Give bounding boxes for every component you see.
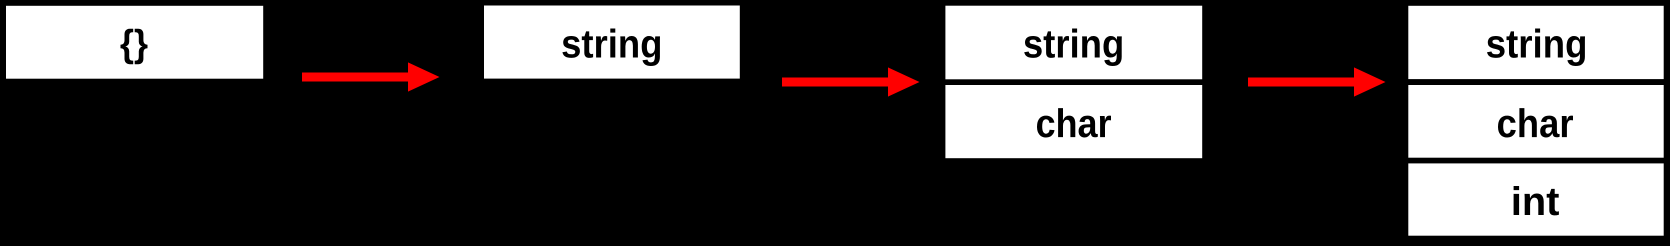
wire arrow 2 <box>782 67 920 96</box>
label string <box>1024 29 1122 67</box>
label char <box>1498 108 1573 137</box>
label int <box>1514 186 1559 215</box>
node box 1 (empty object) <box>6 6 263 79</box>
node box 4 row 1 (string) <box>1408 6 1663 79</box>
node box 2 (string) <box>484 6 740 79</box>
node box 3 row 2 (char) <box>945 85 1202 158</box>
label char <box>1037 108 1111 137</box>
node box 4 row 3 (int) <box>1408 163 1663 235</box>
node box 4 row 2 (char) <box>1408 85 1663 158</box>
label string <box>1487 29 1585 67</box>
wire arrow 1 <box>302 62 440 91</box>
node box 3 row 1 (string) <box>945 6 1202 80</box>
label {} <box>121 29 148 64</box>
wire arrow 3 <box>1248 67 1386 96</box>
label string <box>562 29 660 67</box>
